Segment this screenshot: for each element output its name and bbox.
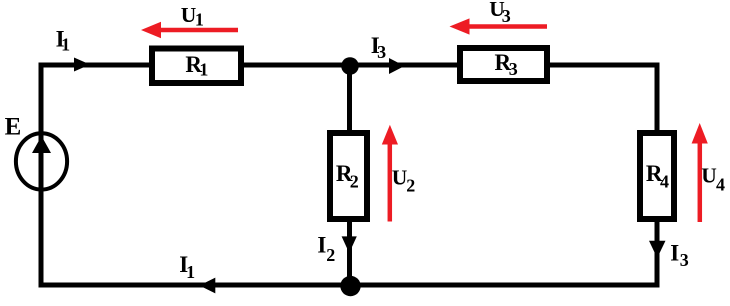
- wire right-bottom segment (R4 to bottom corner): [655, 220, 660, 288]
- svg-text:E: E: [5, 114, 22, 141]
- voltage source E (circle with up arrow): [16, 133, 67, 189]
- voltage arrow U1 (red, pointing left over R1): [141, 22, 238, 38]
- svg-text:I: I: [670, 241, 679, 266]
- svg-text:3: 3: [377, 42, 386, 62]
- svg-text:U: U: [701, 164, 717, 188]
- svg-text:3: 3: [502, 6, 511, 26]
- label R3: [495, 50, 518, 79]
- svg-text:1: 1: [186, 262, 195, 282]
- node junction top (between R1, R2, R3): [341, 57, 359, 75]
- label I1 top: [56, 27, 71, 55]
- wire bottom segment: [39, 283, 660, 288]
- svg-text:1: 1: [199, 60, 208, 80]
- label I2: [317, 233, 335, 266]
- label U2: [392, 166, 416, 196]
- wire top-right segment (R3 to corner) and right drop to R4: [549, 65, 657, 132]
- voltage arrow U4 (red, pointing up beside R4): [692, 123, 708, 222]
- label U1: [181, 3, 204, 30]
- svg-text:U: U: [181, 3, 197, 27]
- svg-text:1: 1: [195, 10, 204, 30]
- label I3 top: [371, 33, 386, 62]
- svg-text:1: 1: [61, 35, 70, 55]
- current arrow I3 right (pointing down below R4): [649, 241, 666, 258]
- svg-text:3: 3: [509, 59, 518, 79]
- current arrow I3 top (pointing right): [389, 58, 405, 74]
- svg-text:I: I: [317, 233, 326, 258]
- svg-text:3: 3: [680, 250, 689, 270]
- label R4: [646, 161, 669, 192]
- wire top-middle segment (R1 to R3 through node): [243, 63, 458, 68]
- label R1: [185, 52, 208, 80]
- resistor R1: [152, 49, 241, 84]
- voltage arrow U3 (red, pointing left over R3): [450, 18, 548, 34]
- wire top-left segment (source to R1): [39, 63, 151, 68]
- resistor R3: [460, 48, 547, 81]
- svg-text:2: 2: [326, 245, 335, 265]
- current arrow I2 (pointing down into bottom node): [342, 236, 357, 253]
- svg-text:4: 4: [716, 175, 725, 195]
- node junction bottom (between R2, R4, source return): [340, 276, 360, 296]
- svg-text:4: 4: [660, 172, 669, 192]
- label U4: [701, 164, 725, 195]
- resistor R2: [330, 133, 367, 219]
- svg-text:2: 2: [350, 172, 359, 192]
- wire middle vertical lower (R2 to bottom node): [347, 220, 352, 287]
- label R2: [336, 161, 359, 192]
- current arrow I1 bottom (pointing left): [199, 278, 215, 294]
- wire left vertical (through source E): [39, 63, 44, 288]
- label I3 right: [670, 241, 688, 271]
- svg-text:U: U: [392, 166, 408, 190]
- resistor R4: [640, 133, 674, 219]
- label U3: [489, 0, 510, 26]
- voltage arrow U2 (red, pointing up beside R2): [382, 125, 398, 222]
- svg-text:2: 2: [406, 175, 415, 195]
- current arrow I1 top (pointing right): [74, 58, 90, 72]
- wire middle vertical upper (node to R2): [347, 64, 352, 132]
- label I1 bottom: [179, 252, 195, 282]
